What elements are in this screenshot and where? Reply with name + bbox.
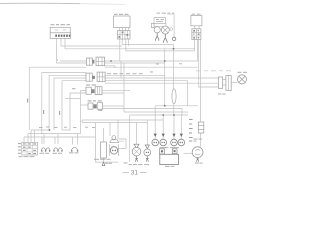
svg-text:— 31 —: — 31 — [123, 170, 147, 177]
